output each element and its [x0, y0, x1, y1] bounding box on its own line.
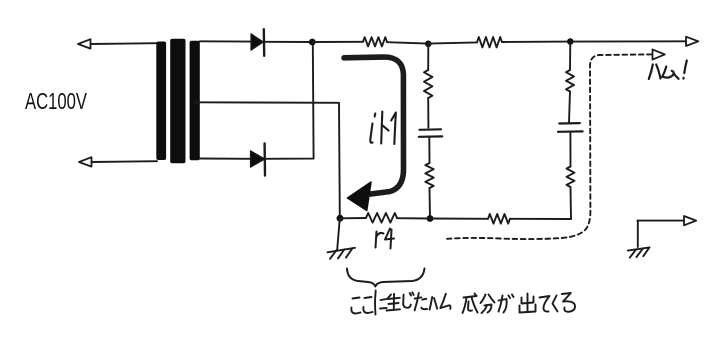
wire top input to transformer primary: [91, 42, 158, 45]
wire node D to output arrow: [570, 40, 686, 42]
wire resistor R6 to bottom rail corner: [570, 187, 573, 219]
input terminal arrow bottom-left: [79, 157, 92, 166]
label hamu! (hum!): [649, 61, 687, 80]
node B junction dot: [337, 215, 344, 222]
capacitor C2: [558, 123, 583, 132]
wire secondary bottom to diode D2: [200, 158, 251, 160]
dashed path arrowhead: [653, 49, 665, 59]
wire capacitor C1 to resistor R4v: [428, 137, 430, 163]
resistor R6: [567, 167, 575, 188]
capacitor C1: [419, 129, 442, 137]
brace under r4 section: [347, 269, 425, 287]
resistor R1: [363, 37, 387, 46]
wire bottom input to transformer primary: [92, 160, 158, 163]
dashed hum leakage path: [447, 54, 651, 239]
node A junction dot: [309, 39, 316, 46]
node D junction dot: [567, 38, 574, 45]
label ih1: [370, 112, 396, 145]
node C junction dot: [425, 41, 432, 48]
current loop arrow ih1: [344, 57, 404, 211]
wire node B to resistor r4: [340, 217, 366, 219]
wire resistor R3 to capacitor C1: [427, 98, 429, 128]
input terminal arrow top-left: [78, 39, 91, 48]
node E junction dot: [427, 215, 434, 222]
resistor R7: [488, 214, 510, 224]
wire node D to resistor R5: [569, 42, 571, 70]
output terminal arrow top-right: [686, 37, 698, 46]
wire capacitor C2 to resistor R6: [569, 132, 571, 167]
transformer T1 core bar: [170, 39, 185, 163]
wire output stub down to ground G2: [637, 221, 639, 247]
wire resistor r4 to node E: [397, 217, 430, 219]
resistor R3: [424, 70, 432, 98]
wire center tap of secondary: [195, 101, 339, 104]
wire resistor R5 to capacitor C2: [569, 92, 570, 123]
ground G2: [628, 247, 650, 257]
caption: koko ni shoujita hamu seibun ga detekuru: [351, 291, 575, 315]
ground G1: [328, 248, 356, 259]
label r4: [376, 229, 395, 249]
wire node A to resistor R1: [312, 41, 363, 43]
transformer T1 secondary winding bar: [190, 41, 200, 161]
wire node E to resistor R7: [430, 218, 488, 220]
wire center tap down to bottom rail node B: [338, 103, 341, 219]
diode D2: [251, 144, 266, 176]
wire resistor R4v to bottom rail node E: [429, 188, 432, 219]
wire diode D2 cathode up to node A: [265, 42, 314, 159]
resistor r4: [366, 213, 397, 223]
transformer T1 primary winding bar: [156, 42, 166, 161]
diode D1: [251, 29, 264, 56]
wire node B to ground G1: [337, 218, 340, 249]
resistor R2: [477, 37, 502, 47]
wire node C to resistor R3: [427, 44, 429, 70]
wire resistor R1 to node C: [387, 42, 428, 43]
wire secondary top to diode D1: [200, 40, 251, 42]
wire diode D1 cathode to node A: [264, 41, 312, 43]
resistor R4v: [425, 163, 433, 188]
resistor R5: [566, 70, 574, 92]
wire resistor R2 to node D: [502, 41, 570, 43]
output terminal arrow bottom-right: [684, 216, 696, 225]
svg-text:AC100V: AC100V: [25, 88, 87, 114]
wire resistor R7 to bottom rail corner: [510, 218, 571, 220]
wire node C to resistor R2: [428, 42, 477, 43]
wire bottom-right output: [638, 220, 685, 222]
